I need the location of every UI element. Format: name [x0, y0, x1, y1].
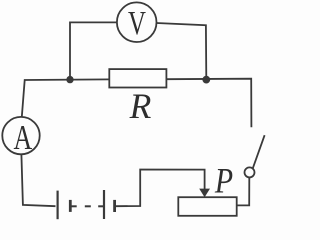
svg-text:V: V	[128, 4, 146, 42]
svg-text:A: A	[13, 118, 32, 157]
svg-text:P: P	[214, 162, 233, 201]
svg-text:R: R	[129, 86, 152, 126]
